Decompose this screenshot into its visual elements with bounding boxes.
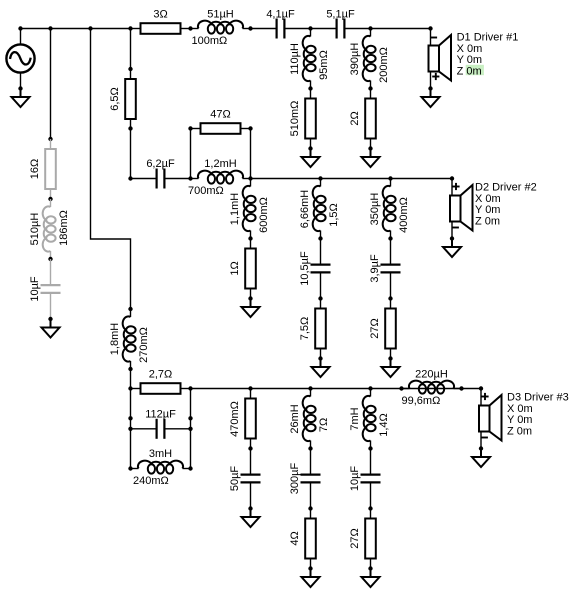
capacitor C 10,5µF: [311, 239, 331, 299]
node terminal 3mH right: [188, 466, 192, 470]
svg-text:200mΩ: 200mΩ: [378, 47, 390, 83]
label D1 info: [457, 32, 519, 78]
wire parallel block right leg: [190, 389, 192, 469]
node terminal 47Ω right: [248, 126, 252, 130]
capacitor C 10µF (disabled): [41, 259, 61, 319]
AC source V1: [6, 29, 34, 89]
node terminal R16 top: [48, 137, 52, 141]
svg-text:95mΩ: 95mΩ: [318, 50, 330, 80]
node junction rail1 x50: [48, 26, 52, 30]
svg-text:112µF: 112µF: [145, 408, 176, 420]
resistor R 16Ω (disabled): [45, 139, 56, 199]
svg-text:300µF: 300µF: [289, 463, 301, 495]
wire x130 rail1 down: [130, 29, 132, 70]
inductor L 1,8mH: [123, 309, 136, 369]
node terminal 7mH/10µF: [368, 446, 372, 450]
ground ground 1Ω: [242, 299, 260, 318]
node junction rail3 x130: [128, 386, 132, 390]
svg-text:4Ω: 4Ω: [289, 531, 301, 545]
node terminal 300µF/4Ω: [308, 506, 312, 510]
svg-text:3Ω: 3Ω: [153, 9, 167, 21]
ground ground 7,5Ω: [312, 359, 330, 378]
wire 47Ω left leg: [190, 129, 192, 179]
node terminal 10µF/27Ω: [368, 506, 372, 510]
svg-text:270mΩ: 270mΩ: [138, 327, 150, 363]
ground ground 510mΩ: [302, 149, 320, 168]
svg-text:470mΩ: 470mΩ: [229, 401, 241, 437]
node junction rail3 x310: [308, 386, 312, 390]
node junction rail3 x250: [248, 386, 252, 390]
speaker driver D3: [479, 389, 502, 449]
svg-text:110µH: 110µH: [289, 43, 301, 75]
svg-text:10µF: 10µF: [29, 276, 41, 302]
svg-text:7,5Ω: 7,5Ω: [299, 317, 311, 341]
node D3 bottom terminal: [479, 446, 483, 450]
node terminal 2Ω bottom: [368, 146, 372, 150]
node terminal 7,5Ω bottom: [318, 356, 322, 360]
resistor R 2,7Ω: [131, 383, 191, 394]
ground ground 2Ω: [362, 149, 380, 168]
inductor L 350µH: [383, 179, 396, 239]
node terminal 4Ω bottom: [308, 566, 312, 570]
capacitor C 4,1µF: [251, 19, 311, 39]
node terminal 47Ω left: [188, 126, 192, 130]
resistor R 3Ω: [131, 23, 191, 34]
node terminal 6,5Ω top: [128, 67, 132, 71]
inductor L 1,1mH: [243, 179, 256, 239]
svg-text:2Ω: 2Ω: [349, 111, 361, 125]
node terminal 3Ω/51µH: [188, 26, 192, 30]
inductor L 220µH: [402, 381, 462, 394]
node D1 bottom terminal: [428, 86, 432, 90]
inductor L 26mH: [303, 389, 316, 449]
svg-text:Z 0m: Z 0m: [475, 215, 500, 227]
node terminal 220µH left: [399, 386, 403, 390]
node D2 top corner: [450, 176, 454, 180]
node D1 top corner: [428, 26, 432, 30]
svg-text:1,5Ω: 1,5Ω: [328, 203, 340, 227]
svg-text:99,6mΩ: 99,6mΩ: [402, 395, 441, 407]
ground ground 27Ω mid: [382, 359, 400, 378]
node terminal 510mΩ bottom: [308, 146, 312, 150]
node terminal 112µF right: [188, 427, 192, 431]
svg-text:1,1mH: 1,1mH: [229, 193, 241, 225]
svg-text:Z 0m: Z 0m: [507, 425, 532, 437]
svg-text:510mΩ: 510mΩ: [289, 101, 301, 137]
svg-text:2,7Ω: 2,7Ω: [149, 369, 173, 381]
svg-text:26mH: 26mH: [289, 404, 301, 433]
svg-text:7Ω: 7Ω: [318, 418, 330, 432]
node D3 top corner: [479, 386, 483, 390]
capacitor C 300µF: [301, 449, 321, 509]
ground source ground: [12, 89, 30, 108]
svg-text:27Ω: 27Ω: [349, 528, 361, 548]
speaker driver D2: [450, 179, 473, 239]
inductor L 1,2mH: [191, 171, 251, 184]
node junction rail2 x390: [388, 176, 392, 180]
speaker driver D1: [429, 29, 452, 89]
svg-text:X 0m: X 0m: [457, 43, 483, 55]
svg-text:3,9µF: 3,9µF: [369, 254, 381, 283]
svg-text:700mΩ: 700mΩ: [188, 185, 224, 197]
node terminal 350µH/3,9µF: [388, 236, 392, 240]
svg-text:47Ω: 47Ω: [210, 109, 230, 121]
node terminal 1,8mH top: [128, 307, 132, 311]
svg-text:10µF: 10µF: [349, 466, 361, 492]
node junction rail3 x370: [368, 386, 372, 390]
node source bottom: [18, 86, 22, 90]
inductor L 110µH: [303, 29, 316, 89]
node terminal 51µH/4,1µF: [248, 26, 252, 30]
ground disabled branch ground: [42, 319, 60, 338]
node terminal 1,8mH bottom: [128, 367, 132, 371]
node terminal 16Ω/510µH: [48, 197, 52, 201]
svg-text:Y 0m: Y 0m: [457, 54, 482, 66]
svg-text:6,66mH: 6,66mH: [299, 190, 311, 229]
svg-text:1,4Ω: 1,4Ω: [378, 413, 390, 437]
ground ground D3: [472, 449, 490, 468]
inductor L 6,66mH: [313, 179, 326, 239]
label D3 info: [507, 392, 569, 438]
svg-text:X 0m: X 0m: [475, 193, 501, 205]
ground ground D2: [443, 239, 461, 258]
svg-text:Z 0m: Z 0m: [457, 65, 482, 77]
node terminal 10µF bottom: [48, 317, 52, 321]
node junction rail1 x370: [368, 26, 372, 30]
wire parallel block left leg: [130, 389, 132, 469]
node terminal 27Ω bottom: [368, 566, 372, 570]
node terminal 3,9µF/27Ω: [388, 296, 392, 300]
svg-text:7mH: 7mH: [349, 407, 361, 430]
resistor R 47Ω: [191, 123, 251, 134]
resistor R 1Ω: [245, 239, 256, 299]
svg-text:510µH: 510µH: [29, 213, 41, 246]
wire rail1 to D1: [371, 28, 431, 30]
wire 1,8mH to rail3: [130, 369, 132, 389]
capacitor C 3,9µF: [381, 239, 401, 299]
node right leg node a: [188, 416, 192, 420]
node terminal 220µH right: [459, 386, 463, 390]
svg-text:6,2µF: 6,2µF: [146, 158, 175, 170]
ground ground D1: [422, 89, 440, 108]
wire rail1 left segment: [21, 28, 131, 30]
svg-text:5,1µF: 5,1µF: [326, 9, 355, 21]
svg-text:50µF: 50µF: [229, 466, 241, 492]
capacitor C 10µF woofer: [361, 449, 381, 509]
svg-text:100mΩ: 100mΩ: [192, 35, 228, 47]
node terminal 6,5Ω bottom: [128, 126, 132, 130]
node junction rail2 x250: [248, 176, 252, 180]
svg-text:10,5µF: 10,5µF: [299, 251, 311, 286]
svg-text:Y 0m: Y 0m: [507, 414, 532, 426]
svg-text:350µH: 350µH: [369, 193, 381, 226]
inductor L 7mH: [363, 389, 376, 449]
node terminal 6,66mH/10,5µF: [318, 236, 322, 240]
label D2 info: [475, 182, 537, 228]
inductor L 390µH: [363, 29, 376, 89]
svg-text:240mΩ: 240mΩ: [133, 475, 169, 487]
ground ground 4Ω: [302, 569, 320, 588]
resistor R 510mΩ: [305, 89, 316, 149]
wire 6,5Ω to rail2: [130, 129, 132, 179]
svg-text:1,8mH: 1,8mH: [109, 323, 121, 355]
svg-text:51µH: 51µH: [207, 9, 234, 21]
svg-text:27Ω: 27Ω: [369, 318, 381, 338]
node junction rail1 x90: [88, 26, 92, 30]
inductor L 510µH (disabled): [43, 199, 56, 259]
svg-text:186mΩ: 186mΩ: [58, 210, 70, 246]
inductor L 51µH: [191, 21, 251, 34]
wire x90 down, over to x130, down to 1.8mH: [91, 29, 131, 310]
node terminal 27Ω bottom: [388, 356, 392, 360]
node terminal 1,1mH/1Ω: [248, 236, 252, 240]
svg-text:3mH: 3mH: [149, 448, 172, 460]
capacitor C 50µF: [241, 449, 261, 509]
capacitor C 5,1µF: [311, 19, 371, 39]
node junction rail1 x310: [308, 26, 312, 30]
node junction rail2 x190: [188, 176, 192, 180]
svg-text:400mΩ: 400mΩ: [398, 197, 410, 233]
svg-text:D1 Driver #1: D1 Driver #1: [457, 32, 519, 44]
node left leg node a: [128, 416, 132, 420]
svg-text:Y 0m: Y 0m: [475, 204, 500, 216]
node junction rail1 x130: [128, 26, 132, 30]
node terminal 50µF bottom: [248, 506, 252, 510]
svg-text:X 0m: X 0m: [507, 403, 533, 415]
resistor R 27Ω woofer: [365, 509, 376, 569]
svg-text:D2 Driver #2: D2 Driver #2: [475, 182, 537, 194]
node terminal 1Ω bottom: [248, 296, 252, 300]
svg-text:4,1µF: 4,1µF: [266, 9, 295, 21]
resistor R 4Ω: [305, 509, 316, 569]
wire rail2 to D2: [251, 178, 453, 180]
ground ground 27Ω woofer: [362, 569, 380, 588]
wire 47Ω right leg: [250, 129, 252, 179]
node terminal 112µF left: [128, 427, 132, 431]
svg-text:D3 Driver #3: D3 Driver #3: [507, 392, 569, 404]
svg-text:1Ω: 1Ω: [229, 261, 241, 275]
resistor R 470mΩ: [245, 389, 256, 449]
capacitor C 112µF: [131, 419, 191, 439]
svg-text:220µH: 220µH: [415, 369, 448, 381]
resistor R 2Ω: [365, 89, 376, 149]
resistor R 27Ω: [385, 299, 396, 359]
node terminal 510µH/10µF: [48, 257, 52, 261]
capacitor C 6,2µF: [131, 169, 191, 189]
node junction rail3 x190: [188, 386, 192, 390]
svg-text:1,2mH: 1,2mH: [204, 158, 236, 170]
resistor R 7,5Ω: [315, 299, 326, 359]
wire rail3 to D3: [191, 388, 482, 390]
svg-text:600mΩ: 600mΩ: [258, 197, 270, 233]
node terminal 26mH/300µF: [308, 446, 312, 450]
node source top: [18, 26, 22, 30]
node terminal 10,5µF/7,5Ω: [318, 296, 322, 300]
node terminal 470mΩ/50µF: [248, 446, 252, 450]
wire x50 down to disabled branch: [50, 29, 52, 140]
svg-text:6,5Ω: 6,5Ω: [109, 87, 121, 111]
node D2 bottom terminal: [450, 236, 454, 240]
svg-text:390µH: 390µH: [349, 43, 361, 76]
node terminal 3mH left: [128, 466, 132, 470]
resistor R 6,5Ω: [125, 69, 136, 129]
node junction rail2 x320: [318, 176, 322, 180]
inductor L 3mH: [131, 461, 191, 474]
svg-text:16Ω: 16Ω: [29, 159, 41, 179]
ground ground 50µF: [242, 509, 260, 528]
node terminal 110µH/510mΩ: [308, 86, 312, 90]
node junction rail2 x130: [128, 176, 132, 180]
node terminal 390µH/2Ω: [368, 86, 372, 90]
